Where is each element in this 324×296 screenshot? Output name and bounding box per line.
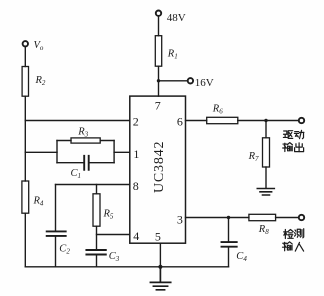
svg-text:16V: 16V <box>195 77 214 89</box>
svg-text:6: 6 <box>177 115 183 129</box>
wire C4 to rail <box>228 248 230 267</box>
terminal detect input <box>299 215 304 220</box>
wire to 16V terminal <box>159 80 188 82</box>
node C4 junction <box>227 216 230 219</box>
op-amp U1 UC3842 body <box>130 96 186 243</box>
wire pin8 line to R5 <box>96 185 98 194</box>
resistor R4 <box>22 181 29 213</box>
wire pin8 down to C2 <box>55 185 57 231</box>
resistor R5 <box>93 194 100 226</box>
svg-text:48V: 48V <box>167 12 186 24</box>
ground R7 <box>257 189 274 196</box>
label detect input char 输2 <box>283 242 293 251</box>
wire left rail low <box>24 213 26 267</box>
label drive output char 输 <box>283 143 293 152</box>
svg-text:R8: R8 <box>258 224 269 236</box>
svg-text:8: 8 <box>133 179 139 193</box>
node ground junction <box>158 265 162 269</box>
svg-text:R3: R3 <box>77 126 88 138</box>
label drive output char 驱 <box>283 131 292 139</box>
resistor R6 <box>207 117 238 123</box>
wire pin 3 <box>186 217 249 219</box>
wire loop top edge <box>57 140 114 142</box>
wire Vo to R2 <box>24 47 26 67</box>
svg-text:R7: R7 <box>248 151 259 163</box>
resistor R1 <box>155 36 161 66</box>
wire R6 to output <box>238 120 299 122</box>
svg-text:5: 5 <box>155 230 161 244</box>
capacitor C2 <box>47 231 66 236</box>
svg-text:R4: R4 <box>33 196 44 208</box>
svg-text:R1: R1 <box>167 49 178 61</box>
resistor R7 <box>263 138 270 167</box>
svg-text:7: 7 <box>155 98 161 112</box>
wire junction to R7 <box>265 121 267 138</box>
svg-text:C1: C1 <box>71 168 82 180</box>
wire loop right edge <box>113 141 115 163</box>
resistor R2 <box>22 67 28 97</box>
terminal drive output <box>299 118 304 123</box>
wire loop left edge <box>56 141 58 163</box>
label drive output char 出 <box>295 143 304 152</box>
svg-text:C3: C3 <box>109 251 120 263</box>
terminal Vo <box>23 41 28 46</box>
label detect input char 测 <box>295 229 304 238</box>
wire R8 to input terminal <box>276 217 299 219</box>
svg-text:Vo: Vo <box>34 40 44 52</box>
svg-text:C2: C2 <box>59 244 70 256</box>
wire loop to pin 1 <box>114 151 130 153</box>
wire pin 8 <box>56 184 130 186</box>
node R7 junction <box>264 119 267 122</box>
svg-text:UC3842: UC3842 <box>152 141 167 193</box>
svg-text:1: 1 <box>133 147 139 161</box>
capacitor C4 <box>222 242 237 247</box>
svg-text:4: 4 <box>133 229 139 243</box>
terminal 48V <box>156 11 161 16</box>
wire R7 to ground <box>265 167 267 188</box>
resistor R3 <box>71 138 100 143</box>
svg-text:3: 3 <box>177 213 183 227</box>
capacitor C3 <box>86 250 105 255</box>
wire rail to R3C1 loop <box>25 151 57 153</box>
wire pin 5 down <box>159 243 161 267</box>
wire bottom rail <box>25 266 228 268</box>
wire R5 to C3 <box>96 226 98 249</box>
label detect input char 检 <box>284 229 294 238</box>
svg-text:2: 2 <box>133 115 139 129</box>
wire C3 to rail <box>96 255 98 266</box>
wire pin 6 to R6 <box>186 120 207 122</box>
node 16V junction <box>157 79 160 82</box>
capacitor C1 <box>84 156 89 170</box>
resistor R8 <box>249 214 276 220</box>
svg-text:C4: C4 <box>236 251 247 263</box>
svg-text:R5: R5 <box>103 209 114 221</box>
wire left rail mid <box>24 96 26 181</box>
label drive output char 动 <box>294 130 304 138</box>
label detect input char 入 <box>295 242 303 251</box>
ground pin5 <box>150 267 170 290</box>
wire loop bottom edge <box>57 162 114 164</box>
terminal 16V <box>188 78 193 83</box>
wire R1 to pin 7 <box>158 66 160 96</box>
wire pin 4 <box>97 234 130 236</box>
wire junction to C4 <box>228 218 230 242</box>
svg-text:R6: R6 <box>212 104 223 116</box>
wire pin 2 <box>25 120 130 122</box>
wire 48V to R1 <box>158 16 160 36</box>
wire C2 to rail <box>55 237 57 267</box>
svg-text:R2: R2 <box>35 75 46 87</box>
